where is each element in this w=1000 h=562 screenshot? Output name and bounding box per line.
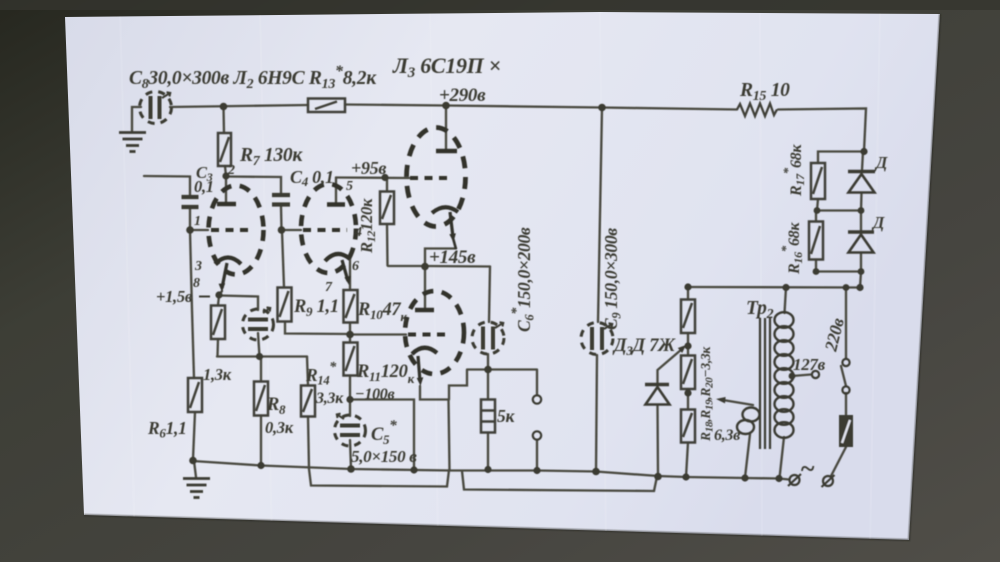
wire merge y271	[816, 270, 861, 272]
wire R6 to bottom rail	[193, 412, 195, 459]
svg-text:1,3к: 1,3к	[203, 365, 232, 384]
wire staircase C6 node to rail	[449, 370, 467, 400]
ground bottom left	[183, 479, 210, 498]
resistor R17 68k	[811, 163, 825, 199]
AC terminal right	[822, 475, 835, 487]
capacitor C6 150.0x200v electrolytic	[472, 322, 504, 354]
wire rail after R15 to right corner	[778, 109, 866, 152]
wire tube2 cathode to R10	[349, 257, 351, 290]
diode D2	[848, 232, 874, 253]
wire 127v tap	[792, 375, 811, 377]
wire R7 top lead	[222, 107, 225, 133]
svg-text:8: 8	[193, 276, 200, 291]
wire C9 bottom lead	[596, 355, 597, 471]
wire tube2 anode lead to +95v	[335, 178, 337, 204]
wire ground lead bottom left	[194, 461, 196, 477]
capacitor C8 30.0x300v electrolytic	[140, 92, 172, 124]
tube L2a (first triode)	[209, 186, 264, 293]
wire C9 top lead	[598, 108, 602, 322]
wire grid node to tube3	[350, 333, 406, 335]
svg-text:R61,1: R61,1	[147, 418, 187, 441]
svg-text:Д: Д	[871, 213, 885, 232]
potentiometer 5k	[481, 400, 495, 433]
resistor R18	[681, 300, 695, 334]
wire heater loop B	[462, 471, 657, 491]
resistor R8 0.3k	[254, 382, 268, 416]
fuse	[839, 415, 853, 447]
tube L1 (error amplifier triode)	[405, 291, 464, 386]
tube L2b (second triode)	[301, 184, 356, 285]
wire transformer primary top lead	[785, 288, 787, 314]
wire C6 bottom lead	[487, 354, 489, 370]
transformer Tr2 6.3v winding	[737, 408, 760, 435]
wire R11 leads	[349, 335, 351, 343]
tube L3 6S19P (pass tube)	[407, 128, 466, 250]
resistor R20	[681, 410, 695, 443]
wire rail R13 to R15	[345, 105, 737, 110]
svg-text:1: 1	[194, 214, 201, 229]
svg-text:+1,5в: +1,5в	[156, 287, 193, 306]
wire L3 cathode jog	[425, 249, 456, 267]
tick after +1,5v	[199, 296, 210, 298]
capacitor Ck cathode bypass electrolytic	[243, 307, 274, 340]
wire +145v rail	[388, 265, 490, 268]
resistor R14 3.3k	[301, 386, 315, 417]
svg-text:0,1: 0,1	[194, 177, 214, 196]
wire node2 to C4	[226, 177, 281, 194]
wire node1 to tube1 grid	[190, 229, 208, 231]
wire switch to fuse	[845, 393, 847, 415]
wire heater loop A	[309, 469, 449, 487]
wire L3 anode lead	[445, 106, 447, 149]
tap terminal 127v	[812, 371, 819, 378]
wire chain bottom to rail	[686, 443, 688, 478]
wire bypass cap bottom lead	[258, 333, 260, 357]
wire input to C3	[144, 176, 190, 195]
output terminal upper	[533, 395, 541, 403]
wire grid node to tube2 grid	[282, 229, 301, 231]
resistor R15 10 zigzag	[737, 104, 777, 117]
wire switch drop	[845, 288, 847, 359]
resistor R9 1.1	[278, 288, 292, 322]
wire top rail +290v	[170, 105, 308, 107]
svg-text:3,3к: 3,3к	[315, 390, 344, 407]
wire output node y370	[467, 368, 537, 370]
svg-text:+95в: +95в	[351, 158, 386, 178]
wire down to 287 node	[860, 272, 861, 288]
resistor R13 8.2k	[308, 99, 345, 113]
output terminal lower	[533, 431, 541, 439]
svg-text:127в: 127в	[793, 355, 826, 374]
wire node1 down left column to R6	[190, 231, 194, 378]
wire R9 bottom to tube3 grid node	[285, 322, 349, 335]
svg-text:+290в: +290в	[439, 85, 486, 106]
wire +95v line	[336, 176, 409, 179]
wire tube3 cathode to bottom	[420, 386, 448, 400]
capacitor C4 0.1	[272, 195, 290, 205]
wire C3 to node 1	[189, 209, 191, 229]
svg-text:R7 130к: R7 130к	[239, 145, 303, 169]
wire C5 leads	[349, 400, 351, 416]
wire 5k pot leads	[487, 370, 489, 399]
wire R14 leads	[307, 357, 308, 386]
wire tube1 cathode to node 8	[219, 291, 222, 295]
ground top left	[119, 133, 146, 152]
wire C4 to grid node	[280, 207, 283, 230]
transformer Tr2 core	[760, 318, 770, 449]
wire R18 chain top lead	[687, 288, 689, 300]
svg-text:5к: 5к	[497, 406, 515, 426]
resistor R16 68k	[809, 222, 823, 260]
wire tube1 anode lead	[225, 177, 227, 202]
wire R8 leads	[260, 357, 262, 382]
wire R17 branch top	[818, 152, 864, 164]
resistor R12 120k	[380, 192, 394, 225]
svg-text:5,0×150 в: 5,0×150 в	[351, 447, 417, 466]
wire D3D bottom lead	[656, 405, 659, 476]
wire R7 bottom lead to node 2	[225, 166, 226, 176]
wire R17 bottom lead	[817, 199, 818, 211]
svg-text:С4 0,1: С4 0,1	[290, 167, 334, 189]
svg-text:2: 2	[227, 163, 235, 178]
wire node8 to bypass cap	[219, 296, 258, 311]
wire 6.3v winding arrow	[720, 400, 753, 406]
wire C6 top lead	[489, 267, 490, 323]
wire R12 leads	[386, 178, 388, 192]
svg-text:6,3в: 6,3в	[714, 427, 740, 444]
diode D1	[848, 172, 875, 193]
wire diode D2 leads	[860, 211, 862, 231]
resistor R7 130k	[218, 133, 231, 166]
svg-text:0,3к: 0,3к	[265, 418, 294, 437]
wire 1.3k resistor leads	[218, 296, 219, 305]
wire tube3 anode lead	[424, 267, 426, 309]
wire chain between boxes	[687, 333, 689, 356]
resistor R19	[681, 356, 695, 390]
wire bus y287	[688, 286, 860, 289]
svg-text:~: ~	[800, 454, 815, 483]
svg-text:Д3Д 7Ж: Д3Д 7Ж	[612, 336, 676, 358]
wire cathode bus y356	[217, 355, 307, 357]
wire rail end to left AC terminal	[779, 479, 789, 480]
wire diode D1 top lead	[862, 152, 863, 171]
svg-text:Д: Д	[874, 153, 888, 172]
wire R10 bottom to grid node of tube3	[349, 323, 351, 335]
wire 6.3v winding bottom lead	[745, 434, 750, 478]
resistor R10 47k	[344, 290, 358, 323]
resistor R11 120k	[344, 343, 358, 376]
wire -100v node to x414 drop	[350, 400, 414, 471]
svg-text:3: 3	[194, 259, 202, 274]
AC terminal left	[788, 474, 801, 486]
svg-text:R9 1,1: R9 1,1	[293, 297, 339, 319]
switch lever	[841, 366, 846, 386]
capacitor C5 5.0x150v electrolytic	[335, 414, 366, 446]
wire diode D1 bottom lead	[860, 193, 863, 211]
switch contacts 220v	[842, 359, 849, 394]
wire D3D diode tap arrow	[658, 349, 683, 384]
svg-text:−100в: −100в	[355, 386, 394, 403]
wire fuse to AC terminal	[831, 447, 846, 476]
svg-text:5: 5	[346, 179, 353, 194]
capacitor C9 150.0x300v electrolytic	[581, 323, 613, 355]
wire transformer primary bottom lead	[780, 437, 785, 478]
svg-text:4: 4	[354, 225, 362, 240]
wire C8 ground lead	[132, 107, 141, 131]
diode D3D 7Zh	[645, 345, 686, 405]
wire grid node down to R9	[282, 231, 284, 287]
wire bottom rail	[193, 461, 779, 479]
resistor 1.3k	[211, 306, 225, 340]
svg-text:+145в: +145в	[429, 247, 476, 268]
wire lower terminal to rail	[536, 440, 538, 470]
transformer Tr2 primary winding	[775, 312, 794, 438]
wire R16 leads	[815, 211, 817, 222]
svg-text:6: 6	[352, 259, 359, 274]
arrow 6.3v tap	[716, 397, 726, 403]
wire upper terminal lead	[536, 370, 538, 395]
wire merge y210	[817, 209, 861, 211]
capacitor C3 0.1	[182, 197, 199, 207]
resistor R6 1.1	[188, 378, 202, 412]
